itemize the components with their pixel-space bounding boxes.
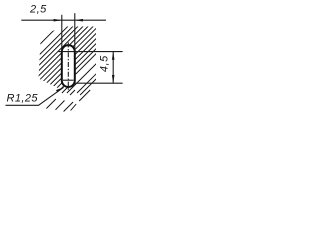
left extension line of 2,5 [61,15,63,52]
arrowhead right (points left at x=74.8) [75,19,83,22]
arrowhead left (points right at x=61.8) [54,19,62,22]
bottom extension line for 4,5 [74,82,122,84]
svg-text:2,5: 2,5 [29,4,47,16]
hatching (section lines, 45 deg) [0,10,165,115]
leader line for R1,25 (shelf + slanted segment) [6,87,64,105]
svg-text:R1,25: R1,25 [7,93,39,105]
vertical centerline (dash-dot) of slot [67,42,69,91]
svg-text:4,5: 4,5 [98,55,110,72]
right extension line of 2,5 [74,13,76,52]
dimension line 4,5 (vertical) [112,52,114,84]
top arc horizontal centerline, continues right as extension line for 4,5 [58,51,122,53]
dimension line 2,5 (horizontal) [21,19,106,21]
hatching bottom ragged strokes [46,90,90,112]
leader arrowhead (points up-right to slot bottom arc) [56,87,64,92]
slot outline (obround hole, section contour) [62,45,75,87]
arrowhead down (points down at y=83.2) [112,75,115,83]
bottom arc horizontal centerline mark [63,79,74,81]
arrowhead up (points up at y=51.6) [112,52,115,60]
